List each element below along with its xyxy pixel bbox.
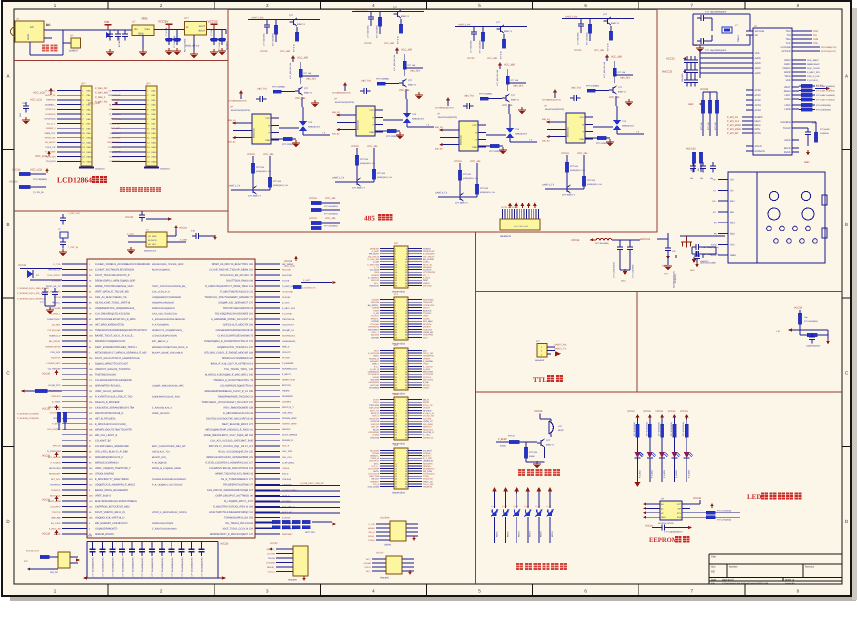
svg-text:24: 24 (405, 478, 407, 481)
net label VCC_485 over IC (609, 96, 620, 106)
svg-text:4.7K: 4.7K (56, 408, 61, 411)
svg-text:BGVD: BGVD (784, 147, 791, 150)
svg-text:8050 Y1: 8050 Y1 (401, 15, 410, 18)
svg-text:8050 Y1: 8050 Y1 (511, 99, 520, 102)
svg-text:CASGCLK: CASGCLK (45, 108, 56, 111)
svg-text:7: 7 (395, 307, 396, 310)
svg-text:19: 19 (395, 323, 397, 326)
resistor termination (271, 137, 298, 146)
svg-text:104(0805)(50V): 104(0805)(50V) (806, 345, 820, 348)
svg-text:CLK_LED4_P_K: CLK_LED4_P_K (152, 291, 170, 294)
svg-text:E_RXDGCLK26_V: E_RXDGCLK26_V (152, 406, 172, 409)
svg-text:(0805)(50V)--1%: (0805)(50V)--1% (360, 162, 375, 165)
svg-text:R?? 10K: R?? 10K (480, 187, 489, 190)
svg-text:9: 9 (395, 460, 396, 463)
svg-text:VCC_485: VCC_485 (577, 152, 588, 155)
svg-text:CASWRN: CASWRN (266, 562, 275, 565)
net label VCC_485 over IC (295, 97, 306, 107)
resistor network backlight (9, 168, 49, 194)
AVCC33 lower feed (686, 148, 703, 173)
svg-text:3: 3 (395, 352, 396, 355)
svg-text:28: 28 (405, 282, 407, 285)
svg-text:OE OUT: OE OUT (148, 243, 157, 246)
svg-text:IRDYP_: IRDYP_ (423, 384, 431, 387)
svg-text:E_TXD: E_TXD (53, 263, 60, 266)
svg-text:ASDRAM10P_: ASDRAM10P_ (282, 340, 297, 343)
svg-text:13: 13 (395, 465, 397, 468)
section box: 485 interface (228, 10, 657, 233)
svg-text:TDI_H: TDI_H (373, 483, 380, 486)
svg-text:P_DB4_DC: P_DB4_DC (95, 87, 108, 90)
svg-text:22: 22 (405, 426, 407, 429)
svg-text:DB14: DB14 (87, 156, 93, 159)
svg-text:CLKRAS16: CLKRAS16 (109, 160, 121, 163)
label backlight control (120, 187, 161, 192)
bus harpoon labels 485_A 485_B (332, 111, 340, 136)
svg-text:VCC_485: VCC_485 (504, 64, 515, 67)
svg-text:9: 9 (395, 409, 396, 412)
TVS diode D2 (383, 99, 434, 127)
svg-text:TTL: TTL (533, 376, 547, 384)
svg-text:SPI_BUSY: SPI_BUSY (369, 253, 380, 256)
svg-text:7_OSC_IN: 7_OSC_IN (68, 246, 79, 249)
svg-text:TDIBA12_V: TDIBA12_V (49, 335, 61, 338)
svg-text:RMIIVCC: RMIIVCC (423, 426, 432, 429)
input pullup resistor string (479, 27, 498, 61)
bottom pullup resistors (561, 152, 602, 189)
svg-text:WRNE_TXD22RFUSE29A6_VS21: WRNE_TXD22RFUSE29A6_VS21 (95, 285, 134, 288)
svg-text:UDQMP_K1: UDQMP_K1 (282, 329, 295, 332)
svg-text:RMIISPI8WRN2E_RXD2DO 24: RMIISPI8WRN2E_RXD2DO 24 (218, 395, 254, 398)
svg-text:INTN: INTN (755, 128, 761, 131)
svg-text:INIT_BBA: INIT_BBA (111, 127, 121, 130)
svg-text:XO: XO (755, 34, 759, 37)
svg-text:SDRAM_: SDRAM_ (423, 452, 433, 455)
svg-text:C?? 104(0805)(50V): C?? 104(0805)(50V) (181, 557, 184, 576)
wire power rail (30, 30, 132, 55)
svg-text:PROG_BC: PROG_BC (45, 137, 56, 140)
svg-text:GND: GND (265, 139, 270, 142)
svg-text:6: 6 (406, 304, 407, 307)
svg-text:DB15: DB15 (87, 160, 93, 163)
svg-text:20: 20 (405, 271, 407, 274)
svg-text:30: 30 (405, 485, 407, 488)
resistor termination (585, 136, 612, 145)
svg-text:E_MDCA13CCLK1CCLK30_: E_MDCA13CCLK1CCLK30_ (95, 423, 128, 426)
svg-text:BUSY: BUSY (373, 470, 379, 473)
svg-text:WRNE_TXD20RCLK23_RMII3 18: WRNE_TXD20RCLK23_RMII3 18 (215, 472, 253, 475)
svg-text:VCCOCS2: VCCOCS2 (423, 373, 434, 376)
svg-text:M_LED26: M_LED26 (370, 269, 380, 272)
svg-text:BUSYP_K29_: BUSYP_K29_ (152, 456, 168, 459)
transistor Q3b (502, 94, 520, 102)
svg-text:J13: J13 (394, 393, 399, 396)
left long net labels upper (17, 287, 49, 301)
svg-text:DQ_CKE12: DQ_CKE12 (368, 255, 380, 258)
svg-text:INIT_BCL: INIT_BCL (51, 478, 61, 481)
svg-text:VCC: VCC (472, 124, 477, 127)
svg-text:B: B (845, 222, 848, 227)
svg-text:VCC_485: VCC_485 (295, 97, 306, 100)
svg-text:R?? 10K(0805): R?? 10K(0805) (479, 40, 482, 53)
svg-text:VCC5V: VCC5V (9, 181, 18, 184)
svg-text:VCC33: VCC33 (574, 49, 582, 52)
svg-text:1: 1 (395, 349, 396, 352)
svg-text:DB15: DB15 (152, 160, 158, 163)
svg-text:P_SDRAM_CLK(33R): P_SDRAM_CLK(33R) (17, 413, 39, 416)
svg-text:VCC_485: VCC_485 (609, 96, 620, 99)
FPGA left VCC flags (42, 369, 58, 535)
svg-text:DOUTRA: DOUTRA (370, 436, 379, 439)
svg-text:LED_TDI2: LED_TDI2 (282, 450, 293, 453)
svg-text:RFUSESPI27A18TMS2 27: RFUSESPI27A18TMS2 27 (223, 484, 253, 487)
svg-text:CCLKCC: CCLKCC (423, 269, 432, 272)
svg-text:8: 8 (406, 457, 407, 460)
svg-text:Q?? 8050 Y1: Q?? 8050 Y1 (455, 202, 469, 205)
svg-text:R?? 10K: R?? 10K (714, 122, 717, 130)
svg-text:25: 25 (395, 431, 397, 434)
resistor pair cluster B (309, 217, 340, 230)
LCD right header top labels (88, 87, 117, 105)
svg-text:VCC: VCC (579, 116, 584, 119)
ground upper near transistor (625, 99, 633, 107)
svg-text:4: 4 (406, 401, 407, 404)
svg-text:SPICLK: SPICLK (53, 445, 61, 448)
svg-text:AN(0805): AN(0805) (226, 41, 229, 50)
svg-text:BAA5E_TXD17_IOL21_P_K16_E_: BAA5E_TXD17_IOL21_P_K16_E_ (95, 335, 134, 338)
svg-text:8: 8 (406, 357, 407, 360)
svg-text:6: 6 (406, 455, 407, 458)
svg-text:50MHz(3.3V): 50MHz(3.3V) (144, 250, 157, 253)
svg-text:TCK: TCK (813, 42, 818, 45)
svg-text:15: 15 (395, 317, 397, 320)
svg-text:UART4_RX: UART4_RX (565, 15, 578, 18)
switch SW1 lower left (24, 550, 80, 575)
svg-text:VCC??: VCC?? (376, 552, 384, 555)
svg-text:(0805)(50V)--1%: (0805)(50V)--1% (377, 176, 392, 179)
svg-text:HSWAPTDI: HSWAPTDI (423, 355, 434, 358)
svg-text:E_MDCTRDY23TCK5_IRDY10 194: E_MDCTRDY23TCK5_IRDY10 194 (213, 506, 253, 509)
svg-text:VDD: VDD (786, 79, 791, 82)
svg-text:NC1: NC1 (730, 222, 735, 225)
svg-text:P_K2: P_K2 (502, 505, 507, 508)
svg-text:VCC: VCC (677, 503, 682, 506)
svg-text:CKELED3: CKELED3 (423, 478, 433, 481)
svg-text:DOUTUDQ: DOUTUDQ (44, 118, 55, 121)
input pullup resistor string (376, 12, 395, 46)
svg-text:(0805)(50V)--1%: (0805)(50V)--1% (570, 169, 585, 172)
svg-text:DONECK: DONECK (51, 489, 61, 492)
svg-text:17: 17 (395, 420, 397, 423)
svg-text:CCLK_CK: CCLK_CK (45, 146, 56, 149)
svg-text:P_LED3: P_LED3 (663, 469, 666, 478)
svg-text:RDNRCLK21VS5RMII24 82: RDNRCLK21VS5RMII24 82 (222, 357, 254, 360)
svg-text:AVDD: AVDD (755, 57, 762, 60)
svg-text:AVCC33: AVCC33 (640, 238, 650, 241)
svg-text:TCKRCLK1_DOUT1HSWAP2_SDRAM2 72: TCKRCLK1_DOUT1HSWAP2_SDRAM2 72 (204, 296, 253, 299)
wire cap bank right arrow (222, 576, 226, 580)
svg-text:UART1_TX: UART1_TX (228, 185, 241, 188)
svg-text:VCC_LCD: VCC_LCD (30, 169, 42, 172)
svg-text:30: 30 (405, 436, 407, 439)
svg-text:DOUT_GCLK12TDO17_HSWAP22CAS: DOUT_GCLK12TDO17_HSWAP22CAS (95, 357, 140, 360)
svg-text:4: 4 (406, 452, 407, 455)
svg-text:GND: GND (692, 44, 698, 47)
capacitor C2 group (165, 26, 187, 52)
svg-text:CSDQ1: CSDQ1 (368, 539, 376, 542)
svg-text:IOLVCC: IOLVCC (371, 478, 379, 481)
svg-text:8050 Y1: 8050 Y1 (611, 22, 620, 25)
svg-text:RDN_SPI: RDN_SPI (46, 155, 56, 158)
label VCC33 cap bank (87, 535, 229, 546)
svg-text:1%(0805): 1%(0805) (820, 132, 829, 135)
svg-text:ACD0: ACD0 (755, 89, 762, 92)
svg-text:4: 4 (406, 250, 407, 253)
svg-text:CLKVCCO4RFUSE21HSWA 73: CLKVCCO4RFUSE21HSWA 73 (218, 335, 254, 338)
svg-text:WEWE2E: WEWE2E (423, 485, 433, 488)
svg-text:P_SPI_MOSI: P_SPI_MOSI (727, 124, 741, 127)
svg-text:HSWAP_IN: HSWAP_IN (109, 122, 121, 125)
svg-text:22: 22 (405, 326, 407, 329)
svg-text:R?? 1K(0805): R?? 1K(0805) (376, 78, 389, 81)
bulk cap cluster VCC33 (571, 238, 640, 278)
svg-text:7: 7 (395, 407, 396, 410)
svg-text:28: 28 (405, 334, 407, 337)
svg-text:WERAS: WERAS (371, 274, 379, 277)
svg-text:DONER: DONER (423, 326, 431, 329)
decoupling capacitor bank (87, 542, 222, 579)
svg-text:/485_TX4: /485_TX4 (571, 87, 582, 90)
svg-text:VCC_485: VCC_485 (280, 50, 291, 53)
svg-text:LDQMD11G: LDQMD11G (368, 371, 380, 374)
svg-text:P_USB_DM P_USB_DP: P_USB_DM P_USB_DP (300, 482, 324, 485)
svg-text:VCC_485: VCC_485 (502, 104, 513, 107)
svg-text:KEY2: KEY2 (506, 531, 509, 537)
svg-text:9: 9 (395, 360, 396, 363)
svg-text:VCCOPROG: VCCOPROG (423, 271, 436, 274)
transistor Q2c UART TX (332, 177, 366, 190)
svg-text:CCLKCLK8: CCLKCLK8 (368, 473, 380, 476)
svg-text:ME_RXD5T: ME_RXD5T (49, 340, 61, 343)
svg-text:E_MDC_RCL: E_MDC_RCL (807, 71, 821, 74)
svg-text:KEY6: KEY6 (551, 531, 554, 537)
svg-text:19: 19 (395, 423, 397, 426)
svg-text:VCC_485: VCC_485 (470, 160, 481, 163)
svg-text:12: 12 (405, 462, 407, 465)
svg-text:VCC_LCD: VCC_LCD (284, 265, 295, 268)
svg-text:P_LED1: P_LED1 (638, 469, 641, 478)
svg-text:DB12: DB12 (87, 146, 93, 149)
svg-text:BUSYSDRAM31GCLK5DOUT25BUS: BUSYSDRAM31GCLK5DOUT25BUS (95, 500, 137, 503)
svg-text:VCC33: VCC33 (680, 410, 688, 413)
label 供电 (42, 45, 57, 52)
svg-text:CLKVS2: CLKVS2 (282, 296, 291, 299)
svg-text:P_SDRAM_DQ15_DMA_B(33R): P_SDRAM_DQ15_DMA_B(33R) (17, 287, 49, 290)
svg-text:VCC33: VCC33 (534, 410, 543, 413)
title block (709, 554, 842, 585)
transistor Q4a (603, 13, 620, 51)
svg-text:CASHSWAP26SDRAM15CKE 99: CASHSWAP26SDRAM15CKE 99 (216, 329, 254, 332)
svg-text:4: 4 (406, 301, 407, 304)
svg-text:IRDY_RMII25DONE5I 138: IRDY_RMII25DONE5I 138 (223, 406, 253, 409)
svg-text:VCC_485: VCC_485 (401, 49, 412, 52)
svg-text:RCLK_IN: RCLK_IN (423, 263, 432, 266)
svg-text:PROG_: PROG_ (368, 535, 376, 538)
svg-text:RDNA4D: RDNA4D (423, 266, 432, 269)
EEPROM decoupling cap (645, 525, 692, 534)
LED resistor block (799, 84, 831, 112)
svg-text:DOUTIRDY: DOUTIRDY (368, 328, 379, 331)
svg-text:P_DBA8INI: P_DBA8INI (282, 362, 294, 365)
svg-text:WRND: WRND (423, 282, 430, 285)
svg-text:(0805)(50V)--1%: (0805)(50V)--1% (273, 184, 288, 187)
reset RC circuit (776, 307, 828, 348)
svg-text:TRDYV: TRDYV (364, 566, 371, 569)
svg-text:E_RXDRAS10DONE18RFUSE: E_RXDRAS10DONE18RFUSE (152, 318, 186, 321)
chassis ground symbol (680, 236, 725, 248)
svg-text:1: 1 (395, 298, 396, 301)
svg-text:R?? 10K: R?? 10K (587, 179, 596, 182)
svg-text:R?? 470R(0805): R?? 470R(0805) (658, 422, 661, 436)
svg-text:11: 11 (395, 412, 397, 415)
svg-text:CAS_A28_TDO5LED11: CAS_A28_TDO5LED11 (152, 313, 178, 316)
svg-text:WRNWE2TDO8CCLK9_M10E_R: WRNWE2TDO8CCLK9_M10E_R (152, 346, 188, 349)
svg-text:15: 15 (395, 467, 397, 470)
svg-text:VCC33: VCC33 (643, 410, 651, 413)
svg-text:BALED3: BALED3 (371, 334, 380, 337)
svg-text:A2: A2 (711, 570, 715, 574)
svg-text:C?? 104(0805)(50V): C?? 104(0805)(50V) (141, 557, 144, 576)
series cap and label row (435, 97, 473, 110)
svg-text:File:: File: (711, 582, 716, 585)
svg-text:VCC5?M: VCC5?M (380, 517, 389, 520)
svg-text:RXD1: RXD1 (784, 63, 791, 66)
svg-text:CCLKM19CKE0TDI13UDQM20E: CCLKM19CKE0TDI13UDQM20E (95, 379, 132, 382)
svg-text:VCCOT: VCCOT (423, 407, 431, 410)
svg-text:VCCO: VCCO (373, 398, 379, 401)
svg-text:VCC33: VCC33 (454, 160, 462, 163)
svg-text:6: 6 (406, 404, 407, 407)
FPGA right lower wire bundle (255, 482, 340, 513)
svg-text:RMIIA14_: RMIIA14_ (111, 118, 122, 121)
svg-text:VREF: VREF (423, 315, 429, 318)
svg-text:DOUTINI: DOUTINI (423, 284, 432, 287)
svg-text:IOLE_TXD11_CCLK14 129: IOLE_TXD11_CCLK14 129 (223, 528, 254, 531)
svg-text:VCC33: VCC33 (220, 543, 229, 546)
svg-text:RMII_D: RMII_D (282, 346, 290, 349)
ground regulator 2 (190, 35, 198, 59)
series cap and label row (542, 89, 580, 102)
svg-text:VSDQ12: VSDQ12 (371, 423, 380, 426)
TXCAP network (799, 122, 830, 146)
power flag VCC_LCD top (30, 88, 53, 102)
connector JTAG lower (364, 552, 414, 580)
svg-text:65LBC184D(SOIC8): 65LBC184D(SOIC8) (231, 109, 250, 112)
bus harpoon labels 485_A 485_B (228, 119, 236, 144)
svg-text:GND: GND (579, 138, 584, 141)
caps below jack (694, 251, 709, 267)
resistor termination (478, 144, 505, 153)
svg-text:ABA30: ABA30 (54, 533, 62, 536)
svg-text:C?? 15pF(0805)(50V): C?? 15pF(0805)(50V) (705, 11, 727, 14)
svg-text:VCC33: VCC33 (42, 455, 51, 458)
svg-text:VD GND: VD GND (148, 235, 157, 238)
svg-text:JP?: JP? (81, 83, 86, 86)
svg-text:Q?? 8050 Y1: Q?? 8050 Y1 (352, 187, 366, 190)
resistor termination (375, 129, 402, 138)
section divider: TTL box vertical (636, 292, 638, 393)
svg-text:AVCC33: AVCC33 (662, 71, 673, 74)
EEPROM body (652, 498, 690, 526)
transistor Q buzzer (537, 439, 555, 458)
transistor Q2a (393, 6, 410, 44)
label 485 interface (364, 214, 392, 223)
svg-text:UDQMP: UDQMP (364, 562, 372, 565)
svg-text:REXT: REXT (784, 86, 791, 89)
svg-text:485_A1: 485_A1 (228, 119, 236, 122)
svg-text:DC?(0805)(50V)104: DC?(0805)(50V)104 (332, 92, 352, 95)
power flag VCC_485 mid (496, 62, 515, 86)
svg-text:15: 15 (395, 266, 397, 269)
485 channel 2 input wire (352, 8, 424, 11)
svg-text:GRN-: GRN- (730, 254, 736, 257)
svg-text:VCC33: VCC33 (693, 497, 702, 500)
svg-text:TCK: TCK (786, 42, 791, 45)
svg-text:RMIIHSWAP: RMIIHSWAP (807, 63, 820, 66)
svg-text:BA_CAS28: BA_CAS28 (423, 258, 434, 261)
svg-text:TCKPROG: TCKPROG (50, 483, 61, 486)
svg-text:29: 29 (395, 485, 397, 488)
ground TXCAP (804, 150, 810, 164)
svg-text:DRDN15SPI31_WE8LDQM30_SDR: DRDN15SPI31_WE8LDQM30_SDR (95, 280, 135, 283)
svg-text:15: 15 (395, 417, 397, 420)
svg-text:15: 15 (395, 368, 397, 371)
svg-text:RMIITMS7: RMIITMS7 (282, 533, 293, 536)
svg-text:RCLK_P: RCLK_P (371, 412, 380, 415)
svg-text:VREFR: VREFR (423, 357, 431, 360)
svg-text:VCCO_E_MDC2VREF2_D20CA: VCCO_E_MDC2VREF2_D20CA (152, 511, 187, 514)
svg-text:VCC33: VCC33 (208, 19, 218, 23)
oscillator circuit (125, 211, 187, 253)
svg-text:EEPROM: EEPROM (649, 537, 679, 544)
svg-text:10: 10 (405, 460, 407, 463)
svg-text:Date:: Date: (711, 579, 717, 582)
svg-text:TCKWRN5: TCKWRN5 (369, 386, 380, 389)
svg-text:2: 2 (406, 298, 407, 301)
svg-text:LDQMSDRAM30TD: LDQMSDRAM30TD (95, 528, 118, 531)
svg-text:R?? 470R(0805): R?? 470R(0805) (682, 422, 685, 436)
label TTL interface (533, 375, 563, 384)
svg-text:VREFD27_RAS12E_TXD4TDO: VREFD27_RAS12E_TXD4TDO (95, 368, 130, 371)
svg-text:26: 26 (405, 279, 407, 282)
regulator U1 7805 (132, 17, 154, 36)
svg-text:TDIRMII31SPI19_DO 154: TDIRMII31SPI19_DO 154 (224, 517, 254, 520)
svg-text:P_BEEP: P_BEEP (498, 438, 507, 441)
svg-text:C?? 104(0805)(50V): C?? 104(0805)(50V) (102, 557, 105, 576)
svg-text:SMBJ6.0CA: SMBJ6.0CA (308, 126, 320, 129)
svg-text:20: 20 (405, 473, 407, 476)
connector J13 expansion header (368, 393, 434, 446)
svg-text:SPIP: SPIP (423, 279, 428, 282)
svg-text:HSWAPA22RDN19E: HSWAPA22RDN19E (152, 302, 175, 305)
svg-text:PROG_B_LDQM26_SPI5D: PROG_B_LDQM26_SPI5D (152, 467, 181, 470)
svg-text:D_INIT_B: D_INIT_B (370, 368, 380, 371)
svg-text:CLK_RMII15DQ15CLK2CS26U: CLK_RMII15DQ15CLK2CS26U (95, 313, 130, 316)
PHY right mid wires (799, 59, 821, 82)
svg-text:RX-: RX- (713, 211, 717, 214)
svg-text:CKEP_DB1SPI17_M17TMS21 90: CKEP_DB1SPI17_M17TMS21 90 (215, 495, 253, 498)
svg-text:P_K1: P_K1 (491, 505, 496, 508)
